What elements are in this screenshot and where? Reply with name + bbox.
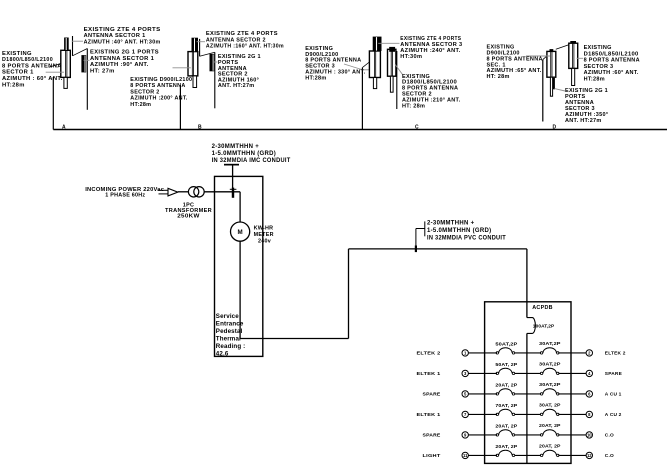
svg-text:D: D bbox=[553, 125, 557, 131]
svg-text:Entrance: Entrance bbox=[216, 320, 244, 327]
svg-text:A CU 1: A CU 1 bbox=[605, 392, 622, 398]
svg-text:30AT,2P: 30AT,2P bbox=[539, 362, 561, 368]
svg-text:EXISTING 2G 1 PORTS: EXISTING 2G 1 PORTS bbox=[90, 50, 159, 56]
svg-text:B: B bbox=[198, 125, 202, 131]
svg-text:A CU 2: A CU 2 bbox=[605, 412, 622, 418]
svg-text:SECTOR 3: SECTOR 3 bbox=[584, 64, 614, 70]
svg-text:ANT. HT:27m: ANT. HT:27m bbox=[565, 118, 602, 124]
svg-text:HT: 28m: HT: 28m bbox=[402, 103, 425, 109]
svg-text:8 PORTS ANTENNA: 8 PORTS ANTENNA bbox=[2, 63, 62, 69]
svg-text:SPARE: SPARE bbox=[423, 433, 442, 439]
svg-text:IN 32MMDIA PVC CONDUIT: IN 32MMDIA PVC CONDUIT bbox=[427, 236, 506, 242]
svg-text:SPARE: SPARE bbox=[605, 371, 623, 377]
svg-text:EXISTING D900/L2100: EXISTING D900/L2100 bbox=[130, 77, 192, 83]
svg-text:HT: 28m: HT: 28m bbox=[487, 74, 510, 80]
svg-text:30AT,2P: 30AT,2P bbox=[539, 341, 561, 347]
svg-text:8 PORTS ANTENNA: 8 PORTS ANTENNA bbox=[130, 83, 185, 89]
svg-text:LIGHT: LIGHT bbox=[423, 453, 441, 459]
svg-text:70AT, 2P: 70AT, 2P bbox=[495, 403, 518, 409]
svg-text:D1850/L850/L2100: D1850/L850/L2100 bbox=[584, 51, 639, 57]
svg-text:Reading :: Reading : bbox=[216, 343, 246, 350]
svg-text:HT: 27m: HT: 27m bbox=[90, 69, 115, 75]
svg-text:METER: METER bbox=[254, 232, 274, 238]
svg-text:AZIMUTH :200° ANT.: AZIMUTH :200° ANT. bbox=[130, 96, 188, 102]
svg-text:50AT,2P: 50AT,2P bbox=[495, 341, 518, 347]
svg-text:Thermal: Thermal bbox=[216, 335, 241, 342]
svg-text:C: C bbox=[415, 125, 419, 131]
svg-text:30AT,2P: 30AT,2P bbox=[539, 382, 561, 388]
svg-text:ANTENNA SECTOR 2: ANTENNA SECTOR 2 bbox=[206, 37, 266, 43]
svg-text:EXISTING: EXISTING bbox=[584, 45, 612, 51]
svg-text:AZIMUTH :60° ANT.: AZIMUTH :60° ANT. bbox=[584, 70, 639, 76]
svg-text:250KW: 250KW bbox=[177, 214, 200, 220]
svg-text:M: M bbox=[238, 229, 243, 236]
svg-text:12: 12 bbox=[587, 453, 592, 458]
svg-text:20AT, 2P: 20AT, 2P bbox=[495, 423, 518, 429]
svg-text:C.O: C.O bbox=[605, 433, 614, 439]
svg-text:100AT,2P: 100AT,2P bbox=[533, 324, 555, 330]
svg-text:HT:28m: HT:28m bbox=[130, 102, 151, 108]
svg-text:Service: Service bbox=[216, 313, 239, 320]
svg-text:ANTENNA SECTOR 1: ANTENNA SECTOR 1 bbox=[90, 56, 155, 62]
svg-text:2-30MMTHHN +: 2-30MMTHHN + bbox=[427, 221, 475, 227]
svg-text:D1800/L850/L2100: D1800/L850/L2100 bbox=[2, 57, 53, 63]
svg-text:1-5.0MMTHHN (GRD): 1-5.0MMTHHN (GRD) bbox=[212, 151, 276, 157]
svg-text:EXISTING: EXISTING bbox=[2, 51, 32, 57]
svg-text:AZIMUTH :160° ANT. HT:30m: AZIMUTH :160° ANT. HT:30m bbox=[206, 44, 284, 50]
svg-text:30AT, 2P: 30AT, 2P bbox=[539, 403, 561, 409]
svg-text:20AT, 2P: 20AT, 2P bbox=[495, 444, 518, 450]
svg-text:SPARE: SPARE bbox=[423, 392, 442, 398]
svg-text:EXISTING ZTE 4 PORTS: EXISTING ZTE 4 PORTS bbox=[84, 27, 161, 33]
svg-text:AZIMUTH :40° ANT. HT:30m: AZIMUTH :40° ANT. HT:30m bbox=[84, 39, 161, 45]
svg-text:8 PORTS ANTENNA: 8 PORTS ANTENNA bbox=[584, 58, 640, 64]
svg-text:240v: 240v bbox=[258, 239, 271, 245]
svg-text:C.O: C.O bbox=[605, 453, 614, 459]
svg-text:2-30MMTHHN +: 2-30MMTHHN + bbox=[212, 144, 260, 150]
svg-text:ELTEK 1: ELTEK 1 bbox=[417, 371, 441, 377]
svg-text:42.6: 42.6 bbox=[216, 351, 229, 358]
svg-text:HT:28m: HT:28m bbox=[2, 82, 25, 88]
svg-text:50AT, 2P: 50AT, 2P bbox=[495, 362, 518, 368]
svg-text:ELTEK 1: ELTEK 1 bbox=[417, 412, 441, 418]
svg-text:A: A bbox=[62, 125, 66, 131]
svg-text:SECTOR 1: SECTOR 1 bbox=[2, 70, 34, 76]
svg-text:ELTEK 2: ELTEK 2 bbox=[417, 351, 441, 357]
svg-text:1-5.0MMTHHN (GRD): 1-5.0MMTHHN (GRD) bbox=[427, 228, 491, 234]
svg-text:20AT, 2P: 20AT, 2P bbox=[539, 444, 561, 450]
svg-text:ELTEK 2: ELTEK 2 bbox=[605, 351, 626, 357]
svg-text:1 PHASE 60Hz: 1 PHASE 60Hz bbox=[105, 193, 145, 199]
svg-text:20AT, 2P: 20AT, 2P bbox=[539, 423, 561, 429]
svg-text:IN 32MMDIA IMC CONDUIT: IN 32MMDIA IMC CONDUIT bbox=[212, 158, 291, 164]
svg-text:AZIMUTH : 60° ANT.: AZIMUTH : 60° ANT. bbox=[2, 76, 63, 82]
svg-text:11: 11 bbox=[463, 453, 468, 458]
svg-text:ACPDB: ACPDB bbox=[532, 305, 553, 311]
svg-text:10: 10 bbox=[587, 433, 592, 438]
svg-text:SECTOR 2: SECTOR 2 bbox=[130, 89, 159, 95]
svg-text:EXISTING ZTE 4 PORTS: EXISTING ZTE 4 PORTS bbox=[206, 31, 278, 37]
svg-text:HT:28m: HT:28m bbox=[584, 77, 605, 83]
svg-text:AZIMUTH :90° ANT.: AZIMUTH :90° ANT. bbox=[90, 62, 149, 68]
svg-text:20AT, 2P: 20AT, 2P bbox=[495, 382, 518, 388]
svg-text:HT:28m: HT:28m bbox=[305, 75, 326, 81]
svg-text:ANT. HT:27m: ANT. HT:27m bbox=[218, 83, 255, 89]
svg-text:Pedestal: Pedestal bbox=[216, 328, 243, 335]
svg-text:KW-HR: KW-HR bbox=[254, 226, 274, 232]
svg-text:HT:30m: HT:30m bbox=[400, 54, 422, 60]
svg-text:ANTENNA SECTOR 1: ANTENNA SECTOR 1 bbox=[84, 33, 146, 39]
